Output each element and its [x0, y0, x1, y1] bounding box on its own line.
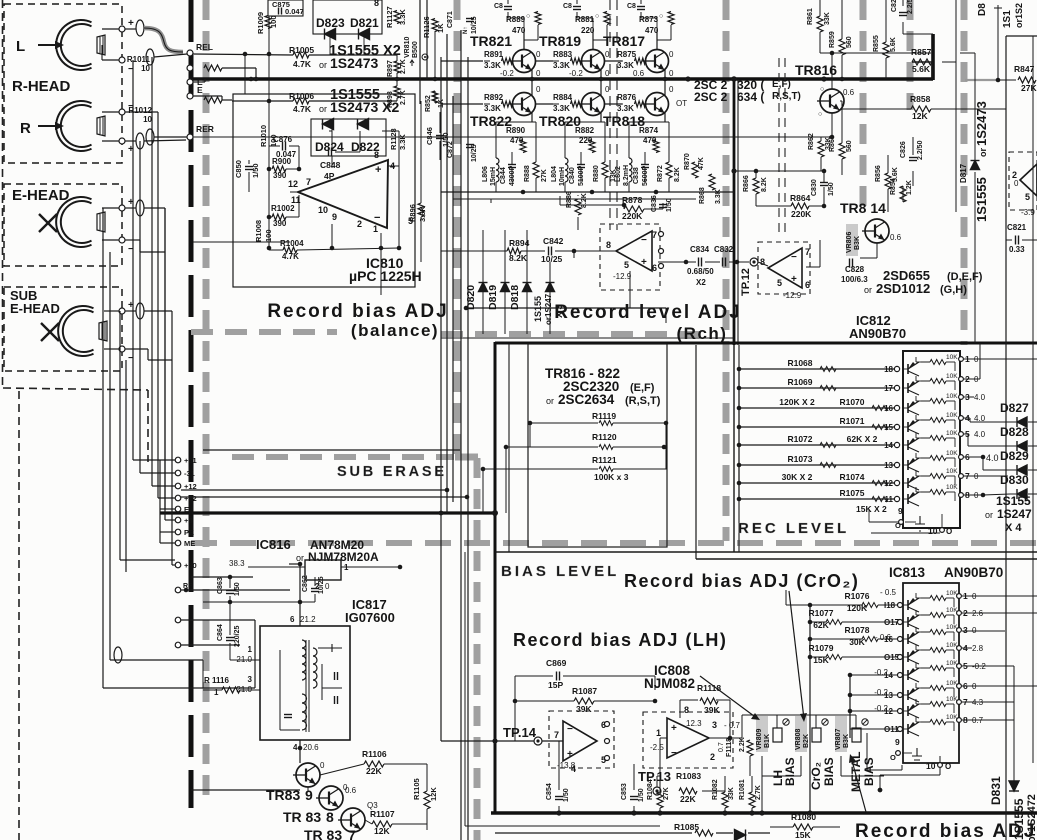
pin 1 — [959, 357, 964, 362]
svg-text:0: 0 — [536, 85, 541, 94]
svg-text:X 4: X 4 — [1005, 522, 1022, 534]
svg-text:D829: D829 — [1000, 449, 1029, 463]
svg-text:2: 2 — [357, 219, 362, 229]
wire base left — [484, 60, 490, 62]
svg-text:TR8 14: TR8 14 — [840, 200, 886, 216]
wire R head cable — [144, 140, 186, 141]
transistor TR822 — [510, 93, 536, 116]
svg-text:TP.14: TP.14 — [503, 725, 537, 740]
wire thin y338 — [441, 337, 734, 339]
svg-text:+31: +31 — [184, 456, 197, 465]
svg-text:(E,F): (E,F) — [630, 382, 655, 394]
svg-text:8: 8 — [760, 257, 765, 267]
svg-text:21.2: 21.2 — [300, 615, 316, 624]
L head terminals — [119, 26, 125, 32]
svg-text:R891: R891 — [484, 50, 504, 59]
wire harness h5 — [172, 564, 175, 566]
svg-text:30K X 2: 30K X 2 — [782, 472, 813, 482]
svg-text:NJM78M20A: NJM78M20A — [308, 550, 379, 564]
svg-text:4: 4 — [293, 743, 298, 752]
wire harness v2 — [119, 311, 121, 560]
IC813 box — [903, 583, 959, 763]
R head connector — [136, 133, 144, 149]
svg-text:6: 6 — [652, 263, 657, 273]
wire grey shield band vertical x726 — [723, 0, 730, 541]
svg-text:1S2473: 1S2473 — [330, 55, 378, 71]
svg-text:1: 1 — [214, 688, 219, 697]
opamp C dashed box — [1009, 152, 1037, 210]
svg-text:20.6: 20.6 — [303, 743, 319, 752]
transistor TR814 — [862, 219, 889, 243]
svg-text:R1121: R1121 — [592, 455, 617, 465]
svg-text:R855: R855 — [873, 35, 880, 52]
svg-text:R870: R870 — [684, 153, 691, 170]
svg-text:12K: 12K — [912, 111, 928, 121]
svg-text:C854: C854 — [546, 783, 553, 800]
info box TR816-822 — [528, 344, 667, 547]
wire r1011 to bus — [222, 67, 256, 69]
svg-text:NJM082: NJM082 — [644, 676, 695, 691]
svg-text:4.7K: 4.7K — [293, 59, 312, 69]
svg-text:15K X 2: 15K X 2 — [856, 504, 887, 514]
svg-text:R1083: R1083 — [676, 771, 701, 781]
svg-text:R852: R852 — [425, 95, 432, 112]
wire grey shield band horizontal y543 — [191, 540, 1037, 546]
svg-text:12: 12 — [884, 479, 893, 488]
svg-text:15: 15 — [884, 423, 893, 432]
svg-text:ME: ME — [184, 539, 195, 548]
svg-text:1S247: 1S247 — [997, 507, 1032, 521]
wire grey shield band vertical x964 — [961, 0, 968, 345]
svg-text:10/25: 10/25 — [471, 16, 478, 34]
svg-text:R1002: R1002 — [271, 204, 295, 213]
svg-text:38.3: 38.3 — [229, 559, 245, 568]
svg-text:E: E — [197, 85, 203, 95]
svg-text:0: 0 — [343, 783, 348, 792]
svg-text:2SC2634: 2SC2634 — [558, 392, 615, 407]
svg-text:+30: +30 — [184, 561, 197, 570]
svg-text:10K: 10K — [946, 468, 958, 475]
opamp A — [616, 231, 652, 271]
wire emitter to bus — [664, 70, 666, 79]
wire harness v3 — [125, 360, 127, 572]
svg-text:33K: 33K — [728, 787, 735, 800]
svg-text:8: 8 — [684, 705, 689, 715]
svg-text:R889: R889 — [506, 15, 526, 24]
svg-text:22K: 22K — [680, 794, 696, 804]
pot VR809 B1K — [756, 716, 768, 752]
svg-text:10K: 10K — [946, 484, 958, 491]
svg-text:0: 0 — [669, 69, 674, 78]
svg-text:11: 11 — [885, 495, 894, 504]
svg-text:E: E — [184, 505, 189, 514]
svg-text:C853: C853 — [621, 783, 628, 800]
opamp E (IC808 right) — [643, 712, 733, 768]
resistor R852 — [432, 91, 438, 103]
wire opamp A out — [602, 250, 616, 252]
E head cross — [39, 214, 57, 232]
svg-text:220K: 220K — [791, 209, 812, 219]
svg-text:C848: C848 — [320, 160, 341, 170]
svg-text:or: or — [546, 396, 554, 406]
SUB E head cross — [41, 323, 59, 341]
svg-text:C846: C846 — [425, 127, 434, 145]
wire right frame inner vertical — [1032, 36, 1034, 763]
svg-text:R864: R864 — [790, 193, 811, 203]
svg-text:R866: R866 — [743, 175, 750, 192]
wire E2 right — [193, 95, 222, 97]
svg-text:R858: R858 — [910, 94, 931, 104]
wire node joins — [154, 54, 187, 57]
svg-text:5.6K: 5.6K — [912, 64, 931, 74]
svg-text:0: 0 — [669, 85, 674, 94]
svg-text:C834: C834 — [690, 245, 710, 254]
resistor R1075 row — [739, 498, 894, 500]
wire harness extra stubs — [160, 508, 175, 510]
svg-text:560: 560 — [846, 36, 853, 48]
svg-text:R1069: R1069 — [787, 377, 812, 387]
svg-text:TP.12: TP.12 — [740, 268, 752, 296]
svg-text:220: 220 — [579, 136, 593, 145]
wire E to bus — [193, 81, 205, 83]
wire emitter row2 down — [664, 113, 666, 122]
svg-text:+5: +5 — [184, 516, 193, 525]
svg-text:D821: D821 — [350, 16, 379, 30]
svg-text:3: 3 — [248, 675, 253, 684]
wire E head stubs — [102, 207, 119, 209]
wire R847 feed — [965, 79, 998, 81]
svg-text:33K: 33K — [824, 12, 831, 25]
svg-text:0.6: 0.6 — [890, 233, 902, 242]
svg-text:1S2473: 1S2473 — [974, 101, 989, 146]
svg-text:7: 7 — [652, 230, 657, 240]
svg-text:○: ○ — [659, 13, 663, 20]
wire far right stubs — [974, 53, 976, 160]
svg-text:○: ○ — [820, 86, 824, 93]
wire base left — [553, 60, 559, 62]
svg-text:0: 0 — [605, 69, 610, 78]
svg-text:0: 0 — [536, 69, 541, 78]
wire right channel box — [1005, 36, 1007, 840]
transistor TR818 — [643, 93, 669, 116]
svg-text:27K: 27K — [1021, 83, 1037, 93]
svg-text:2SC 2: 2SC 2 — [694, 90, 728, 104]
svg-text:39K: 39K — [576, 704, 592, 714]
svg-text:14: 14 — [884, 441, 893, 450]
svg-text:R 1116: R 1116 — [204, 676, 229, 685]
svg-text:R1081: R1081 — [739, 779, 746, 800]
svg-text:560: 560 — [846, 140, 853, 152]
svg-text:9: 9 — [898, 506, 903, 516]
svg-text:12: 12 — [288, 179, 298, 189]
wire collector row2 — [600, 79, 602, 95]
svg-text:R880: R880 — [593, 165, 600, 182]
svg-text:TR817: TR817 — [603, 33, 645, 49]
wire y497 — [181, 496, 467, 498]
L head — [56, 20, 105, 70]
opamp D dashed box — [549, 711, 614, 768]
svg-text:Record bias ADJ (CrO₂): Record bias ADJ (CrO₂) — [624, 571, 859, 591]
svg-text:C825: C825 — [891, 0, 898, 12]
svg-text:-31: -31 — [184, 469, 195, 478]
svg-text:100/6.3: 100/6.3 — [841, 275, 868, 284]
svg-text:IC813: IC813 — [889, 565, 926, 580]
svg-text:3.3K: 3.3K — [617, 104, 634, 113]
svg-text:REL: REL — [196, 42, 213, 52]
wire metal arrow — [851, 757, 866, 812]
svg-text:0: 0 — [325, 582, 330, 591]
svg-text:VR808: VR808 — [795, 728, 802, 750]
svg-text:100: 100 — [269, 15, 278, 28]
svg-text:0.6: 0.6 — [633, 69, 645, 78]
wire left outer dashed border — [2, 0, 4, 386]
svg-text:10K: 10K — [946, 393, 958, 400]
svg-text:D827: D827 — [1000, 401, 1029, 415]
cell transistor 8 — [907, 494, 909, 504]
svg-text:R1087: R1087 — [572, 686, 597, 696]
bus junction dots — [249, 77, 254, 82]
svg-text:R1012: R1012 — [128, 106, 152, 115]
wire heavy bus x933 up — [931, 34, 935, 80]
svg-text:1: 1 — [373, 224, 378, 234]
svg-text:C830: C830 — [811, 179, 818, 196]
SUB E-HEAD box — [4, 287, 122, 371]
svg-text:0.047: 0.047 — [285, 7, 304, 16]
svg-text:0: 0 — [605, 85, 610, 94]
svg-text:R1010: R1010 — [259, 125, 268, 147]
svg-text:R1085: R1085 — [674, 822, 699, 832]
svg-text:0.7: 0.7 — [718, 742, 725, 752]
wire vertical x956 — [955, 0, 957, 212]
wire opamp B — [758, 262, 768, 266]
svg-text:D828: D828 — [1000, 425, 1029, 439]
svg-text:C864: C864 — [217, 624, 224, 641]
svg-text:µPC 1225H: µPC 1225H — [349, 268, 422, 284]
svg-text:or: or — [296, 553, 304, 563]
svg-text:10K: 10K — [946, 373, 958, 380]
svg-text:- 0.6: - 0.6 — [875, 633, 892, 642]
cell transistor 5 — [907, 440, 909, 450]
svg-text:47K: 47K — [698, 157, 705, 170]
svg-text:BIAS: BIAS — [862, 757, 876, 786]
svg-text:B2K: B2K — [803, 734, 810, 748]
wire info box verticals — [508, 344, 510, 552]
diodes vertical row — [479, 283, 488, 292]
svg-text:9: 9 — [332, 212, 337, 222]
svg-text:R876: R876 — [617, 93, 637, 102]
pin 3 — [959, 395, 964, 400]
node RER — [187, 134, 193, 140]
svg-text:X 3: X 3 — [554, 304, 564, 318]
wire harness v9 — [171, 311, 173, 565]
svg-text:R862: R862 — [808, 133, 815, 150]
wire VR links — [776, 715, 778, 728]
wire caps row — [658, 261, 696, 263]
svg-text:100K x 3: 100K x 3 — [594, 472, 629, 482]
wire vertical x269 — [268, 16, 270, 101]
svg-text:4.7K: 4.7K — [282, 252, 299, 261]
svg-text:9: 9 — [895, 737, 900, 747]
svg-text:B1K: B1K — [764, 734, 771, 748]
svg-text:39K: 39K — [704, 705, 720, 715]
svg-text:27K: 27K — [663, 787, 670, 800]
svg-text:220/25: 220/25 — [234, 625, 241, 647]
node E3 — [175, 617, 181, 623]
svg-text:B3K: B3K — [854, 236, 861, 250]
L head connector — [136, 20, 144, 36]
wire harness h0 — [133, 459, 175, 461]
svg-text:6: 6 — [805, 280, 810, 290]
svg-text:Record bias ADJ (LH): Record bias ADJ (LH) — [513, 630, 727, 650]
svg-text:L804: L804 — [551, 166, 558, 182]
svg-text:or1S247: or1S247 — [544, 293, 553, 325]
svg-text:Record level ADJ: Record level ADJ — [554, 302, 742, 323]
wire sub erase bus — [203, 449, 460, 451]
svg-text:−: − — [641, 235, 647, 246]
svg-text:17: 17 — [884, 384, 893, 393]
svg-text:R1075: R1075 — [839, 488, 864, 498]
E head — [56, 197, 105, 247]
svg-text:6: 6 — [290, 615, 295, 624]
svg-text:TR 83: TR 83 — [283, 809, 321, 825]
svg-text:B3K: B3K — [843, 734, 850, 748]
svg-text:R-HEAD: R-HEAD — [12, 78, 70, 95]
svg-text:8.2K: 8.2K — [761, 177, 768, 192]
svg-text:R1071: R1071 — [839, 416, 864, 426]
svg-text:16: 16 — [884, 404, 893, 413]
wire TP14 line — [441, 740, 534, 742]
wire ic810 internals — [268, 101, 270, 248]
svg-text:IG07600: IG07600 — [345, 610, 395, 625]
wire harness v5 — [139, 141, 141, 473]
node B — [175, 642, 181, 648]
svg-text:C850: C850 — [234, 160, 243, 178]
wire base rows — [441, 60, 483, 62]
wire grey shield band horizontal y457 — [232, 454, 454, 460]
connector oval lower — [114, 647, 122, 663]
svg-text:E-HEAD: E-HEAD — [10, 301, 60, 316]
opamp B — [768, 248, 802, 288]
transistor TR821 — [510, 50, 536, 73]
svg-text:13: 13 — [884, 461, 893, 470]
svg-text:BIAS: BIAS — [783, 757, 797, 786]
R head terminals — [119, 109, 125, 115]
wire lower-left dashed border horizontal — [3, 388, 148, 390]
wire long y192 — [441, 191, 734, 193]
wire ladder outputs right — [964, 358, 1037, 360]
svg-text:10: 10 — [318, 205, 328, 215]
svg-text:R1011: R1011 — [127, 55, 151, 64]
transistor TR819 — [579, 50, 605, 73]
wire left feeders — [738, 369, 740, 499]
IC810 outer box — [233, 94, 415, 287]
svg-text:VR806: VR806 — [846, 231, 853, 253]
svg-text:OT: OT — [676, 99, 687, 108]
svg-text:220K: 220K — [622, 211, 643, 221]
svg-text:10: 10 — [928, 526, 938, 536]
svg-text:8.2K: 8.2K — [509, 253, 528, 263]
svg-text:R1008: R1008 — [254, 220, 263, 242]
svg-text:1S1555: 1S1555 — [974, 177, 989, 222]
svg-text:1.2K: 1.2K — [906, 180, 913, 195]
svg-text:D817: D817 — [959, 163, 968, 183]
pin 10 — [940, 528, 945, 533]
wire harness v8 — [164, 208, 166, 520]
svg-text:−: − — [567, 724, 573, 735]
wire solid y559 — [696, 558, 1037, 560]
wire lower link — [181, 589, 290, 591]
IC816 box — [305, 560, 341, 580]
wire emitter row2 down — [600, 113, 602, 122]
svg-text:2.2/50: 2.2/50 — [907, 0, 914, 14]
svg-text:10/25: 10/25 — [541, 254, 563, 264]
svg-text:120K X 2: 120K X 2 — [779, 397, 815, 407]
wire harness h3 — [158, 497, 175, 499]
wire heavy x734 down — [733, 78, 736, 345]
capacitor C875 box — [268, 0, 303, 16]
wire harness v1 — [109, 252, 111, 660]
svg-text:8: 8 — [374, 150, 379, 160]
svg-text:+: + — [128, 18, 134, 29]
svg-text:2.7K: 2.7K — [400, 90, 407, 105]
cell transistor 3 — [907, 403, 909, 413]
svg-text:○: ○ — [818, 111, 822, 118]
svg-text:27K: 27K — [541, 169, 548, 182]
svg-text:14: 14 — [884, 671, 893, 680]
svg-text:R1074: R1074 — [839, 472, 864, 482]
svg-text:TR 83: TR 83 — [304, 827, 342, 840]
svg-text:R854: R854 — [890, 178, 897, 195]
svg-text:-13.8: -13.8 — [557, 761, 576, 770]
wire emitter to bus — [531, 70, 533, 79]
svg-text:L806: L806 — [482, 166, 489, 182]
wire crO2 arrow — [789, 591, 804, 719]
connector pins — [175, 457, 181, 463]
wire diode box drops — [329, 34, 331, 55]
svg-text:O: O — [945, 762, 951, 771]
svg-text:R1106: R1106 — [362, 749, 387, 759]
svg-text:18: 18 — [884, 365, 893, 374]
svg-text:R888: R888 — [524, 165, 531, 182]
svg-text:0: 0 — [669, 50, 674, 59]
R head — [56, 101, 105, 151]
svg-text:C821: C821 — [1007, 223, 1027, 232]
svg-text:62K X 2: 62K X 2 — [847, 434, 878, 444]
pot VR808 B2K — [795, 716, 807, 752]
svg-text:3: 3 — [712, 720, 717, 730]
svg-text:R883: R883 — [553, 50, 573, 59]
svg-text:F1118: F1118 — [726, 738, 733, 757]
wire y308 — [466, 307, 666, 309]
resistor R1073 row — [739, 464, 894, 466]
wire misc right of heads — [164, 208, 166, 509]
svg-text:1/50: 1/50 — [828, 182, 835, 196]
wire bottom mesh — [558, 764, 560, 790]
svg-text:(R,S,T): (R,S,T) — [625, 395, 661, 407]
wire harness h1 — [140, 472, 175, 474]
svg-text:Record bias ADJ: Record bias ADJ — [267, 301, 448, 322]
svg-text:(G,H): (G,H) — [940, 284, 967, 296]
svg-text:1/50: 1/50 — [666, 198, 673, 212]
wire y53 right segment — [842, 52, 931, 54]
svg-text:1/50: 1/50 — [234, 582, 241, 596]
wire RF line — [103, 687, 255, 689]
svg-text:R1127: R1127 — [385, 6, 394, 28]
svg-text:1/50: 1/50 — [563, 788, 570, 802]
wire grey shield band vertical x863 — [860, 0, 867, 212]
svg-text:5.6K: 5.6K — [890, 37, 897, 52]
svg-text:or1S2: or1S2 — [1014, 3, 1024, 28]
